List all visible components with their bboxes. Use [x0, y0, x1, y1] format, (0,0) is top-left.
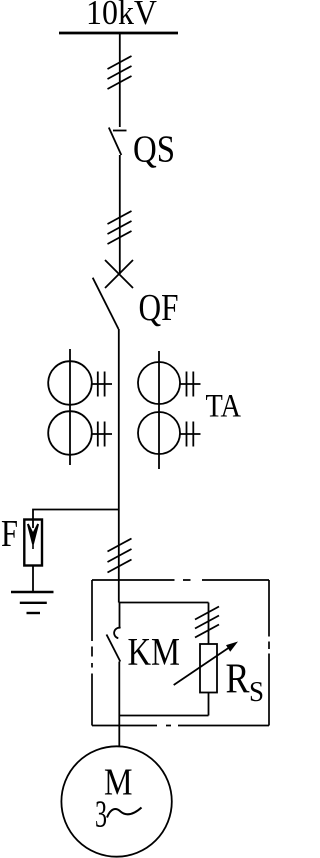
wire arrester to ground — [32, 566, 34, 592]
label RS — [226, 657, 265, 709]
wire QF to box — [118, 329, 120, 603]
wire resistor branch lower — [208, 693, 210, 716]
wire QS to QF — [119, 155, 121, 274]
svg-text:F: F — [1, 513, 18, 555]
wire KM to motor — [118, 662, 120, 748]
circuit breaker QF — [93, 260, 133, 329]
wire to arrester branch — [33, 510, 119, 520]
busbar 10kV — [59, 32, 178, 35]
CT TA right upper secondary lead — [180, 372, 201, 397]
break slashes group 2 — [108, 211, 132, 244]
CT TA left primary line — [69, 349, 71, 465]
CT TA left upper circle — [48, 361, 92, 405]
resistor RS arrow — [174, 642, 238, 686]
disconnector QS — [109, 128, 127, 156]
svg-text:QS: QS — [133, 129, 175, 171]
CT TA left upper secondary lead — [92, 372, 112, 397]
break slashes group 1 — [108, 56, 132, 89]
surge arrester F arrow — [28, 520, 38, 549]
CT TA right lower circle — [138, 412, 180, 454]
svg-text:QF: QF — [139, 287, 179, 329]
CT TA left lower secondary lead — [92, 422, 112, 447]
svg-text:R: R — [226, 657, 250, 703]
wire resistor branch upper — [208, 603, 210, 645]
motor M circle — [61, 746, 171, 856]
surge arrester F body — [24, 520, 42, 566]
svg-text:TA: TA — [206, 389, 242, 425]
svg-text:S: S — [249, 677, 264, 708]
CT TA right lower secondary lead — [180, 422, 201, 447]
svg-text:KM: KM — [128, 631, 181, 674]
svg-text:10kV: 10kV — [86, 0, 157, 32]
CT TA right upper circle — [138, 362, 180, 404]
break slashes group 4 — [195, 607, 219, 638]
svg-text:3: 3 — [95, 794, 107, 836]
node wire loop top — [119, 602, 209, 604]
label 3 phase — [95, 794, 142, 836]
ground — [11, 592, 54, 613]
resistor RS body — [200, 644, 217, 693]
CT TA right primary line — [158, 351, 160, 469]
break slashes group 3 — [108, 539, 132, 573]
node wire loop bottom — [119, 715, 209, 717]
contactor KM — [107, 603, 121, 662]
starter cabinet dash-dot box — [92, 580, 269, 726]
wire bus to QS — [119, 34, 121, 127]
svg-text:M: M — [104, 762, 133, 804]
CT TA left lower circle — [48, 411, 92, 455]
